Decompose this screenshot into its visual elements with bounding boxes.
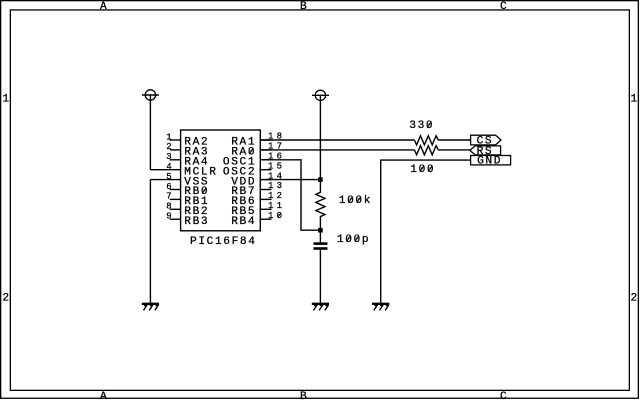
svg-text:10: 10 [268,211,285,221]
U1 pin 5 (VSS) stub [150,172,180,182]
junction OSC1/cap node [318,228,323,233]
wire resistor R2 to RS flag [438,149,470,151]
value label 100k [339,195,372,207]
resistor R1 330 [414,136,438,145]
svg-text:11: 11 [268,201,285,211]
svg-text:1: 1 [166,132,171,142]
U1 pin 9 (RB3) stub [166,212,180,222]
U1 pin 8 (RB2) stub [166,202,180,212]
svg-text:B: B [300,391,307,400]
U1 pin 12 (RB6) stub [260,191,285,201]
svg-text:6: 6 [166,182,171,192]
resistor R3 100k vertical [316,180,325,231]
wire OSC1 pin 16 around to cap node [260,160,320,230]
U1 pin label RB0 [184,186,209,198]
svg-text:7: 7 [166,192,171,202]
U1 pin 6 (RB0) stub [166,182,180,192]
svg-text:2: 2 [166,142,171,152]
svg-text:3: 3 [166,152,171,162]
wire GND flag to ground [381,160,471,303]
net flag RS [470,146,501,158]
power symbol VCC left [142,90,159,100]
capacitor C1 100p [314,230,328,303]
svg-text:15: 15 [268,161,285,171]
svg-text:RB4: RB4 [231,216,256,228]
ground symbol right [372,304,389,311]
svg-text:2: 2 [2,293,9,305]
svg-text:100k: 100k [339,195,372,207]
svg-text:A: A [100,1,107,13]
U1 pin 4 (MCLR) stub [150,162,180,172]
U1 pin 11 (RB5) stub [260,201,285,211]
net flag GND [471,156,511,168]
resistor R2 100 [414,146,438,155]
svg-text:C: C [500,391,507,400]
svg-text:RB3: RB3 [184,216,209,228]
U1 pin 14 (VDD) stub [260,171,285,181]
wire VDD pin 14 to node [260,179,320,181]
value label 330 [409,120,434,132]
U1 pin 1 (RA2) stub [166,132,180,142]
svg-text:13: 13 [268,181,285,191]
ground symbol left [142,304,159,311]
power symbol VCC right [312,90,329,100]
svg-text:8: 8 [166,202,171,212]
U1 pin 2 (RA3) stub [166,142,180,152]
svg-text:1: 1 [2,93,9,105]
ground symbol middle [312,304,329,311]
op IC U1 PIC16F84 body [181,130,261,231]
U1 pin 13 (RB7) stub [260,181,285,191]
svg-text:9: 9 [166,212,171,222]
wire resistor R1 to CS flag [438,139,470,141]
wire VCC right down to VDD node [319,95,321,179]
wire VSS pin 5 down to ground [149,180,151,303]
wire VCC left to MCLR pin 4 [149,95,151,170]
svg-text:B: B [300,1,307,13]
U1 pin 17 (RA0) stub [260,142,285,152]
wire RA0 pin 17 to resistor R2 [260,149,414,151]
U1 pin 16 (OSC1) stub [260,152,285,162]
svg-text:12: 12 [268,191,285,201]
U1 pin 15 (OSC2) stub [260,161,285,171]
value label 100p [337,234,370,246]
net flag CS [471,135,501,147]
svg-text:2: 2 [631,293,638,305]
U1 pin 18 (RA1) stub [260,132,285,142]
svg-text:5: 5 [166,172,171,182]
value label 100 [410,164,435,176]
svg-text:A: A [100,391,107,400]
wire RA1 pin 18 to resistor R1 [260,139,414,141]
svg-text:GND: GND [477,156,502,168]
U1 pin 10 (RB4) stub [260,211,285,221]
svg-text:100p: 100p [337,234,370,246]
U1 pin 3 (RA4) stub [166,152,180,162]
svg-text:1: 1 [631,93,638,105]
svg-text:C: C [500,1,507,13]
U1 pin label RA0 [231,147,256,159]
junction VDD node [318,177,323,182]
svg-text:4: 4 [166,162,171,172]
svg-text:PIC16F84: PIC16F84 [190,236,257,248]
U1 pin 7 (RB1) stub [166,192,180,202]
